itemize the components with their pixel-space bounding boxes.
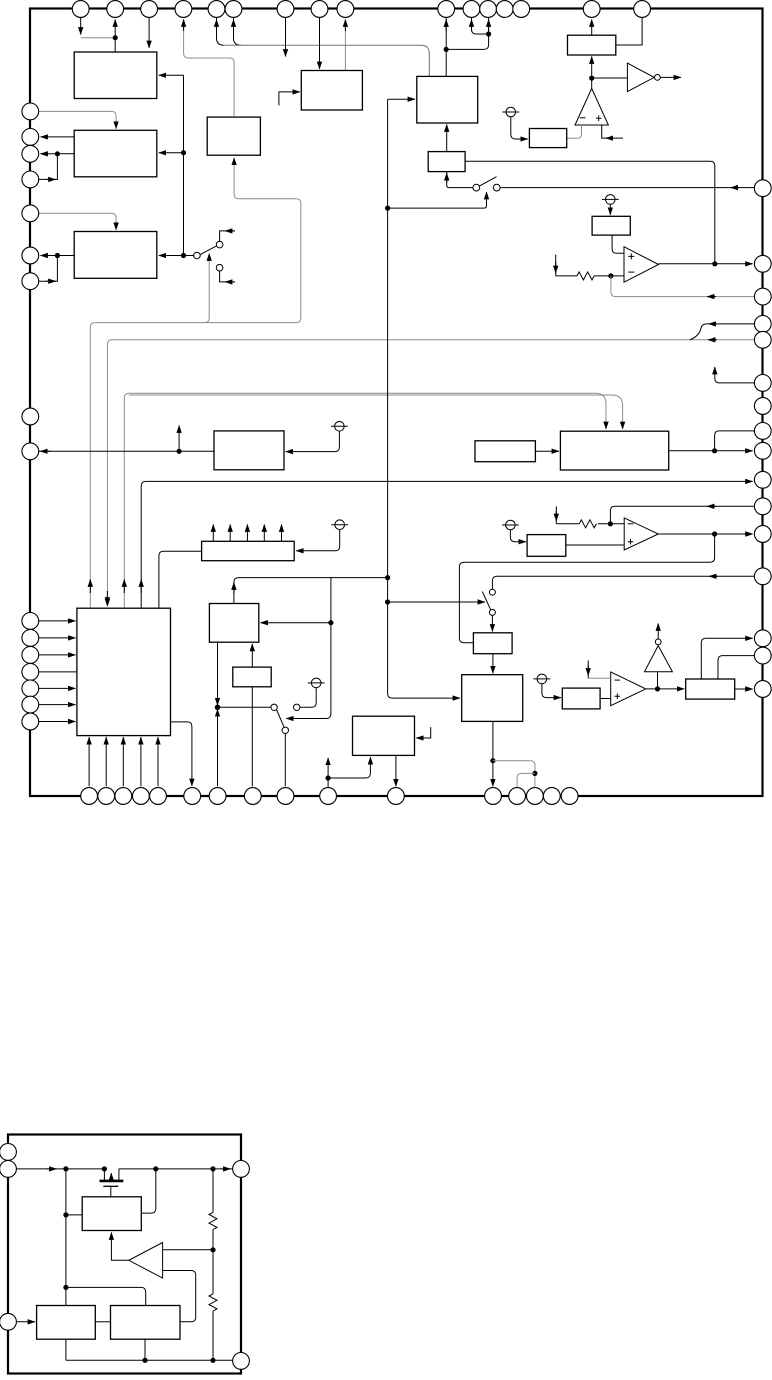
BOXES [74,35,735,755]
wire U1 plus leg from right stub [602,125,623,138]
wire dangling stub above U4 minus [587,660,589,678]
wire hook into box B22 right edge [416,727,431,738]
wire block B2 right input [159,152,184,154]
wire right rail segment 2 [212,1230,214,1294]
node J20 on U4 output [655,686,660,691]
arrow left on pin R4 line [709,323,718,325]
arrow up into box B7 bottom [446,173,448,183]
box B4 [207,117,260,155]
node J2 on bus N183 at block B2 [181,150,186,155]
arrow down on U4 minus stub [587,665,589,676]
transistor Q1 right stub [118,1169,120,1180]
node J10 on U2 minus input [608,273,613,278]
box B13 [560,431,668,470]
wire bottom rail [66,1359,233,1361]
arrow right on top rail near right pin [221,1168,231,1170]
wire big block right output elbow down to pin B6b [171,722,192,786]
switch SW4 lever [277,710,285,728]
wire elbow pin L7 up to J13 [39,256,58,282]
wire box B16 top elbow to bus J7 [234,578,388,604]
wire gray line B from right pins to big block top [107,340,754,606]
transistor Q1 gate stem into box M1 [110,1186,112,1197]
wire dangling up stub at J14 [178,426,180,452]
arrow down on dangling stub [555,262,557,273]
wire block B3 right input [159,255,184,257]
box B7 [428,152,465,172]
wire pin R6 dangling stub with up arrow [715,367,755,383]
triangle T3 pointing left [129,1243,163,1279]
wire curve from pin V5 [217,18,224,46]
node J18 on B19 bottom line [490,758,495,763]
IC border frame (main diagram) [30,9,763,797]
arrow up midline on line A [89,580,91,594]
node J16 on U3 minus input [608,521,613,526]
op-amp U2 minus label [628,271,634,273]
wire pin V1 down-arrow stub [80,18,82,35]
wire op-amp U2 minus input line [594,275,624,277]
box B17 [233,667,271,687]
buffer T1 inversion bubble [655,75,661,81]
wire left of resistor R2 [556,523,579,525]
wire box B13 right to pin R9 [669,450,753,452]
node J8 on bus N387 at SW3 control [385,599,390,604]
pins right R1-R16 [754,180,771,197]
wire block B2 out to pin L3 [41,153,75,155]
node J19 on gray elbow [532,771,537,776]
node J17 on U3 output [712,531,717,536]
switch SW3 lever [482,592,491,611]
box B19 [462,675,523,722]
pot symbol P6 circle-cross into box B20 left [534,674,562,697]
pot symbol P4 circle-cross into box B14 right [296,520,348,551]
arrow on SW1 upper hook [225,230,235,232]
wire big block left inputs from pins L10-L16 [39,621,77,722]
wire J22 to switch SW4 left contact [218,706,271,708]
arrow down midline on line B into big block [106,591,108,605]
arrow left on R11 feedback [707,505,716,507]
SECOND DIAGRAM (regulator block) [8,1135,241,1374]
wire triangle T3 output elbow up into box M1 bottom [111,1233,128,1261]
op-amp U1 minus label [580,117,586,119]
wire black from big block top to long box B14 left [159,551,202,607]
wire J11 up into box B8 bottom [591,57,593,79]
wire box B19 bottom to pin B9 [492,721,494,786]
box B10 [529,129,566,148]
S-curve jog joining line B [690,324,707,340]
switch SW4 left contact [271,704,277,710]
arrow up into pin V6 [233,20,235,32]
wire box B7 right edge feedback elbow to op-amp U2 output [465,161,715,264]
transistor Q1 channel bar [100,1180,124,1183]
wire bracket down-left to pin V10 line [446,34,488,49]
pot symbol P2 circle-cross [602,195,619,215]
wire 5 dangling up arrows from long box B14 top [213,525,281,542]
arrow left into pin L9 [40,450,51,452]
arrow left on SW2 pin line [731,187,740,189]
pins top V1-V16 [72,1,89,18]
wire U1 apex output up [591,78,593,88]
node J13 on pin L6 line [55,253,60,258]
wire pin B10 up with dangling arrow [327,758,329,788]
box B22 [353,716,415,755]
pot symbol P5 circle-cross into box B15 left [502,520,526,542]
wire T3 lower input elbow from box M4 right [163,1271,196,1322]
node J1 [113,35,118,40]
wire K7 elbow into box M4 top [66,1287,146,1305]
node J15 on B13 output [712,448,717,453]
pin right2-2 [233,1353,250,1370]
box M1 [82,1197,141,1231]
op-amp U4 triangle [611,672,646,706]
wire SW3 control from bus J8 [388,601,485,603]
node J6 on bus N387 switch SW2 control [385,206,390,211]
wire pin V3 down into block B1 [148,18,150,49]
arrow down on R2 stub [555,511,557,521]
wire gray link pin V1 to node at pin V2 [81,37,116,39]
wire box B8 right to pin V16 [616,18,642,46]
wire SW2 right contact to pin R1 [500,187,754,189]
wire K5 into box M1 left [66,1214,82,1216]
switch SW2 left contact [473,184,480,191]
node K8 [142,1358,147,1363]
node K7 [63,1285,68,1290]
wire gray from pin V4 to box B4 top [184,21,235,117]
wire hook into box B5 left edge [279,92,300,106]
arrow right on pin L4 elbow [46,178,56,180]
wire box B7 top up into box B6 bottom [446,125,448,152]
switch SW4 lower contact [282,727,288,733]
wire dangling stub above R1 line [555,255,557,276]
arrow left on gray feedback [707,296,716,298]
pins left L1-L16 [22,103,39,120]
arrow right on pin L7 elbow [46,280,56,282]
switch SW2 right contact [493,184,500,191]
box B15 [527,535,566,557]
wire SW3 lower contact into box B18 top [491,615,493,631]
box B11 [214,431,284,470]
wire pin L9 line to box B11 left [39,450,214,452]
wire T3 upper input from right rail [163,1249,213,1251]
wire box B8 top into pin V15 [591,20,593,36]
op-amp U3 triangle [624,518,658,550]
pot symbol P1 circle-cross [502,107,527,139]
wire top rail right segment [119,1168,233,1170]
wire block B3 out to pin L6 [41,255,75,257]
resistor R2 on U3 minus input [579,520,596,528]
resistor R1 on U2 minus input [577,272,594,280]
node J4 bracket join [486,31,491,36]
wire box B17 top into box B16 bottom [251,644,253,667]
block B1 [74,52,157,99]
wire long horizontal to box B6 top [224,45,430,76]
arrow up into pin V9 [344,20,346,32]
resistor R4 vertical [209,1294,217,1311]
wire left rail down into box M3 top [65,1169,67,1306]
wire pin V8 into box B5 top [319,18,321,70]
switch SW2 lever [479,177,496,186]
op-amp U2 plus label [628,253,634,259]
wire pin V7 dangling down arrow [285,18,287,57]
wire block B1 right input from bus N183 [159,74,184,76]
arrow up midline on B16 output [233,583,235,595]
wire left of resistor R1 [556,275,577,277]
wire feedback from pin R11 to J16 [610,506,754,524]
node K6 [210,1247,215,1252]
wire box B18 bottom into box B19 top [492,654,494,674]
pin left2-3 [0,1313,16,1330]
block B2 [74,130,157,177]
node J3 on bus N183 at block B3 [181,253,186,258]
wire elbow pin L4 up to J12 [39,154,58,180]
box B21 [686,679,735,699]
wire pin V2 up into pin, down to block B1 [114,20,116,52]
wire long elbow J17 down-left into box B18 left [459,534,714,643]
box M3 [37,1306,96,1340]
arrow up into pin V11 [471,20,473,32]
node J21 [328,620,333,625]
wire T2 bubble dangling up arrow [657,624,659,640]
wire box M4 bottom to bottom rail [144,1339,146,1360]
wire box M1 right elbow up to top rail K3 [141,1169,156,1213]
wire into box B16 right edge from node J21 [261,622,331,624]
node J9 on op-amp U2 output [712,261,717,266]
triangle T2 inversion bubble [655,639,661,645]
arrow on SW1 lower hook [225,281,235,283]
wire box B12 right into box B13 left [535,450,559,452]
wire bus N183 vertical [183,75,185,255]
wire line A branch to switch SW1 control [205,254,210,323]
wire J23 elbow into box B22 bottom [328,757,370,778]
wire black from big block top to right pin R10 [141,481,752,607]
switch SW1 upper contact [216,241,223,248]
transistor Q1 MOSFET left stub [103,1169,105,1180]
wire vertical N331 from B16 line down to SW4 control [286,578,331,719]
wire box M3 to box M4 link [95,1321,110,1323]
resistor R3 vertical [209,1212,217,1229]
wire box B20 right to U4 plus input [600,698,611,700]
arrow left on line B near right pin [708,339,717,341]
wire U3 output to pin R12 [658,533,752,535]
wire elbow box B21 top to pin R14 [701,638,752,679]
box B5 [301,71,362,111]
PINS (terminal circles) [22,1,771,805]
pins bottom B1-B16 [81,788,98,805]
switch SW1 lower contact [216,264,223,271]
wire pin B7 up through box B17 into box B16 bottom [251,687,253,787]
node J5 on pin V10 line [444,47,449,52]
op-amp U3 minus label [628,523,634,525]
wire right rail segment 3 [212,1311,214,1360]
switch SW3 upper contact [489,589,495,595]
wire SW1 upper contact hook [220,231,235,241]
big block [77,608,171,735]
triangle T2 upward [645,646,673,672]
wire elbow box B21 top to pin R15 [718,656,754,679]
arrow right on top rail near left pin [47,1168,57,1170]
node J14 on pin L9 line [177,449,182,454]
node K2 at MOSFET drain [102,1166,107,1171]
op-amp U1 plus label [596,115,602,121]
wire box B22 bottom to pin B11 [395,755,397,786]
wire right rail segment 1 [212,1169,214,1213]
wire box B15 right to U3 plus input [566,544,624,546]
wire box B16 bottom down to J22 [217,642,219,705]
wire box B21 right to pin R16 [735,688,753,690]
wire SW2 control from bus N387 [388,192,487,208]
wire pin R4 jog S-curve to line B [707,323,754,325]
wire pin V12 down [488,18,490,35]
node J11 at U1 output [589,76,594,81]
wire pin left3 into box M3 left [16,1321,35,1323]
transistor Q1 body arrow stub [110,1173,112,1180]
box B9 [592,216,630,235]
wire op-amp U2 output to pin R2 [659,263,753,265]
box B12 [475,441,535,462]
wire box B9 bottom elbow to op-amp U2 plus input [612,235,624,253]
node J12 on pin L3 line [55,151,60,156]
wire bracket pin V11 [472,18,489,35]
wire J11 to buffer T1 input [592,77,628,79]
wire gray line C1 from big block top to box B13 top [124,393,606,607]
wire gray feedback from J10 to pin R3 [611,276,755,297]
wire curve from pin V6 [234,18,241,46]
block B3 [74,232,157,279]
op-amp U3 plus label [628,539,634,545]
wire pin R13 to switch SW3 upper contact [492,576,754,589]
box B8 [568,35,616,55]
node J7 on bus N387 at B16 line [385,575,390,580]
switch SW3 lower contact [489,609,495,615]
pot symbol P7 circle-cross [308,678,325,688]
wire U4 output into box B21 left [646,688,685,690]
wire gray elbow pin L1 into block B2 top [39,111,116,128]
arrow up midline on big block output line [140,580,142,594]
op-amp U4 minus label [615,679,621,681]
node K4 [210,1166,215,1171]
wire SW1 lower contact hook [220,271,235,282]
pin left2-2 [0,1161,16,1178]
wire elbow J15 up to pin R8 [715,431,755,451]
IC border frame (second diagram) [8,1135,241,1374]
wire pin B6 up to node J22 [217,709,219,786]
arrow up into pin V12 [488,20,490,32]
wire U3 minus input line [598,523,624,525]
wire gray elbow pin L5 into block B3 top [39,213,116,230]
wire dangling stub above R2 line [555,506,557,524]
box B20 [562,688,600,709]
arrow up into pin V4 [183,20,185,32]
wire central bus N387 vertical into box B19 left [388,99,460,698]
wire box M3 bottom to bottom rail [65,1339,67,1360]
wire node J3 to switch SW1 left contact [184,255,194,257]
op-amp U4 plus label [615,693,621,699]
wire gray elbow J19 to pin B13 [517,773,535,787]
box B18 [473,633,512,654]
pin right2-1 [233,1161,250,1178]
switch SW1 lever [200,246,216,255]
WIRES-MAIN [81,18,235,282]
wire central bus N387 into box B6 left edge [388,98,415,100]
node J22 [215,705,221,711]
arrow left on pin R13 line [709,575,718,577]
arrow up midline on line C1 [123,580,125,594]
wire gray line A from big block top to box B4 bottom [90,158,300,608]
arrow up into pin V10 [445,20,447,32]
wire top rail left segment [16,1168,104,1170]
pin left2-1 (second diagram) [0,1144,16,1161]
wire gray elbow J18 to pin B14 [493,761,535,788]
box B14 long [202,541,295,560]
buffer T1 triangle [627,63,654,92]
wire J20 up to triangle T2 base [657,672,659,689]
box M4 [111,1306,181,1340]
op-amp U1 vertical triangle [575,89,608,126]
node J23 on pin B10 line [326,775,331,780]
wire buffer T1 output arrow [660,76,681,78]
node K3 [153,1166,158,1171]
wire SW4 lower contact down to pin B8 [284,734,286,787]
box B16 [209,604,258,643]
wire gray line C2 second branch into box B13 top [129,395,623,429]
box B6 [417,76,478,123]
wire gray box B10 right to U1 minus leg [567,125,582,138]
switch SW4 right contact [294,704,300,710]
wire pin V10 down into box B6 top [445,18,447,77]
switch SW1 left contact [194,252,201,259]
node K1 [63,1166,68,1171]
transistor Q1 gate bar [103,1185,118,1187]
wire SW4 right contact up to pot P7 [300,688,316,708]
pot symbol P3 circle-cross into box B11 right [286,422,348,452]
arrow left into U1 plus leg corner [606,137,613,139]
wire block B2 out to pin L2 [41,136,75,138]
wire gray U4 minus input [588,677,611,679]
wire gray box B5 top to pin V9 [344,21,346,71]
op-amp U2 triangle [624,247,659,283]
arrow up into pin V5 [216,20,218,32]
wire big block bottom inputs from pins B1-B5 [89,737,158,786]
node K5 [63,1212,68,1217]
wire box B7 bottom elbow to switch SW2 left contact [447,172,473,188]
node K9 [210,1358,215,1363]
